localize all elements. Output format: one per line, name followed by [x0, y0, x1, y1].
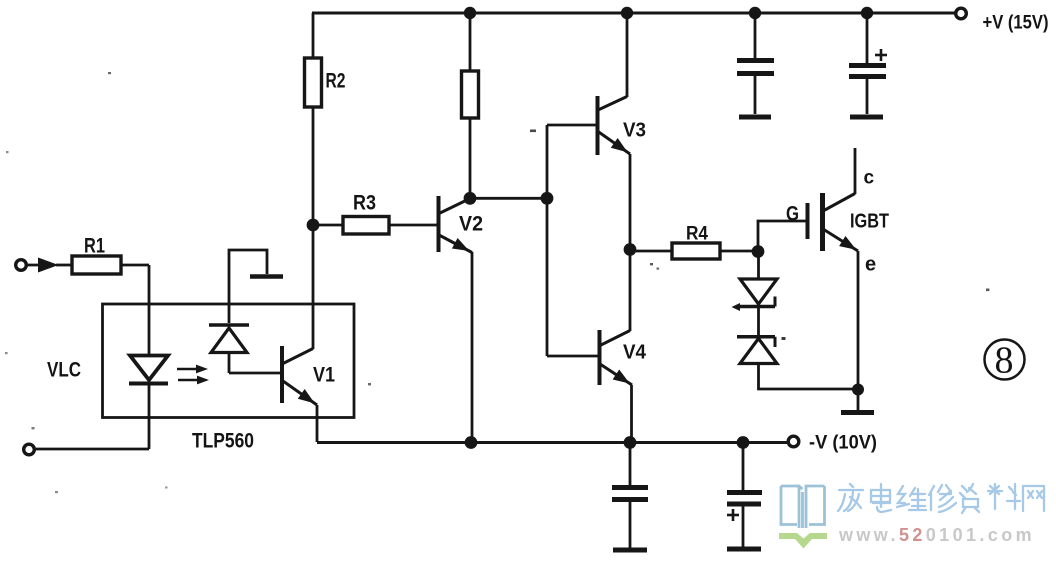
transistor V3 — [598, 96, 647, 157]
node scan speck 2 — [6, 151, 9, 153]
svg-text:e: e — [865, 254, 876, 276]
ground photodiode — [250, 274, 283, 279]
wire V1 emitter down to rail — [316, 405, 319, 442]
wire LED cathode to lower terminal — [35, 448, 149, 451]
transistor V4 — [600, 330, 647, 389]
wire junction up and to IGBT gate — [758, 221, 806, 251]
terminal input bottom — [24, 444, 35, 455]
svg-text:V3: V3 — [623, 119, 646, 142]
node scan speck 8 — [368, 383, 371, 385]
wire IGBT collector — [854, 148, 857, 194]
resistor R4 — [672, 243, 720, 259]
svg-text:+V (15V): +V (15V) — [983, 12, 1049, 33]
wire V4 collector up to junction — [629, 249, 632, 331]
wire R3 to V2 base — [389, 224, 437, 227]
watermark url — [838, 525, 1035, 545]
node scan speck 12 — [5, 352, 8, 354]
wire photodiode anode to V1 base — [229, 372, 281, 375]
node junction gate/zener — [752, 245, 765, 258]
wire junction to R3 — [313, 224, 343, 227]
svg-text:R1: R1 — [84, 235, 105, 258]
wire R2 to junction — [312, 107, 315, 225]
svg-text:-V (10V): -V (10V) — [809, 433, 877, 454]
wire V4 emitter to bottom rail — [630, 385, 633, 442]
wire to V4 base — [547, 355, 599, 358]
wire IGBT emitter down — [857, 251, 860, 389]
node junction top rail above C2 — [861, 7, 873, 19]
transistor IGBT — [808, 193, 890, 255]
capacitor C2 top electrolytic — [849, 13, 887, 117]
node junction V3/V4/R4 — [624, 243, 637, 256]
diode zener VZ1 — [732, 279, 778, 311]
capacitor C3 bottom — [612, 442, 648, 550]
optocoupler TLP560 box — [103, 304, 355, 418]
node junction top rail above resistor — [464, 7, 476, 19]
svg-text:V1: V1 — [313, 364, 335, 387]
wire resistor to V2 collector junction — [469, 118, 472, 198]
wire input arrow — [27, 264, 44, 267]
wire R1 to LED — [121, 264, 149, 267]
wire V2 emitter down to bottom rail — [471, 252, 474, 442]
diode LED opto input — [129, 265, 168, 449]
diode zener VZ2 — [737, 337, 777, 364]
terminal input top — [16, 260, 27, 271]
wire between zeners — [757, 304, 760, 338]
ground IGBT emitter — [841, 389, 874, 413]
node scan speck 11 — [32, 427, 35, 429]
transistor V1 — [282, 346, 335, 408]
wire V2 collector junction to bases node — [470, 197, 547, 200]
svg-text:R3: R3 — [353, 192, 376, 215]
wire V3 emitter down — [629, 154, 632, 249]
node scan speck 6 — [782, 337, 786, 340]
wire photodiode cathode up to ground — [229, 250, 267, 323]
wire zener 2 to emitter ground — [759, 364, 859, 390]
node scan speck 1 — [108, 72, 111, 74]
node scan speck 3 — [530, 130, 536, 133]
resistor R3 — [343, 217, 389, 235]
node arrow input — [38, 258, 59, 273]
terminal -V (10V) — [788, 436, 799, 447]
node scan speck 9 — [55, 491, 58, 493]
node scan speck 4 — [650, 263, 653, 265]
node junction V2 collector — [464, 192, 477, 205]
node light arrow 1 — [177, 365, 208, 374]
svg-text:V2: V2 — [459, 212, 483, 236]
watermark chinese text — [838, 484, 1044, 513]
wire junction down to V1 collector — [312, 225, 315, 349]
svg-text:R2: R2 — [326, 70, 346, 93]
node junction top rail above V3 — [621, 7, 633, 19]
wire bottom -V rail — [317, 441, 788, 444]
node scan speck 7 — [986, 289, 989, 292]
svg-text:VLC: VLC — [47, 359, 81, 382]
resistor R1 — [72, 256, 121, 274]
capacitor C1 top — [737, 13, 774, 117]
node junction top rail above C1 — [749, 7, 761, 19]
wire arrow to R1 — [56, 264, 72, 267]
node junction driver bases — [541, 192, 554, 205]
svg-text:www.520101.com: www.520101.com — [838, 525, 1035, 545]
node junction R2/R3 — [307, 219, 320, 232]
wire junction down to zener 1 — [757, 251, 760, 279]
wire from rail down to R2 — [312, 13, 315, 58]
wire rail down to unlabeled resistor — [469, 13, 472, 71]
svg-text:V4: V4 — [623, 341, 647, 364]
resistor R2 — [305, 58, 322, 107]
svg-text:IGBT: IGBT — [850, 211, 889, 233]
capacitor C4 bottom electrolytic — [727, 442, 762, 549]
node light arrow 2 — [178, 376, 209, 385]
svg-text:8: 8 — [995, 340, 1014, 382]
resistor (unlabeled) above V2 — [462, 71, 479, 118]
node junction bottom rail C4 — [737, 436, 750, 449]
wire R4 to gate junction — [720, 250, 758, 253]
wire V3 collector to rail — [626, 13, 629, 97]
node scan speck 10 — [165, 487, 168, 489]
svg-text:TLP560: TLP560 — [192, 430, 254, 453]
node figure number 8 — [985, 340, 1025, 382]
wire vertical bases feed — [546, 125, 549, 356]
node scan speck 5 — [657, 268, 660, 270]
watermark book icon — [781, 486, 825, 528]
terminal +V (15V) — [956, 8, 967, 19]
wire top +V rail — [312, 12, 955, 15]
node junction emitter/ground — [852, 384, 864, 396]
svg-text:G: G — [786, 203, 799, 226]
wire junction to R4 — [630, 250, 672, 253]
svg-text:c: c — [864, 168, 875, 189]
diode photodiode opto — [209, 325, 249, 373]
wire to V3 base — [547, 124, 597, 127]
transistor V2 — [439, 196, 484, 256]
svg-text:R4: R4 — [686, 223, 708, 245]
watermark book swoosh — [779, 533, 827, 549]
node junction bottom rail V2 emitter — [465, 436, 478, 449]
node junction bottom rail C3 — [624, 436, 637, 449]
